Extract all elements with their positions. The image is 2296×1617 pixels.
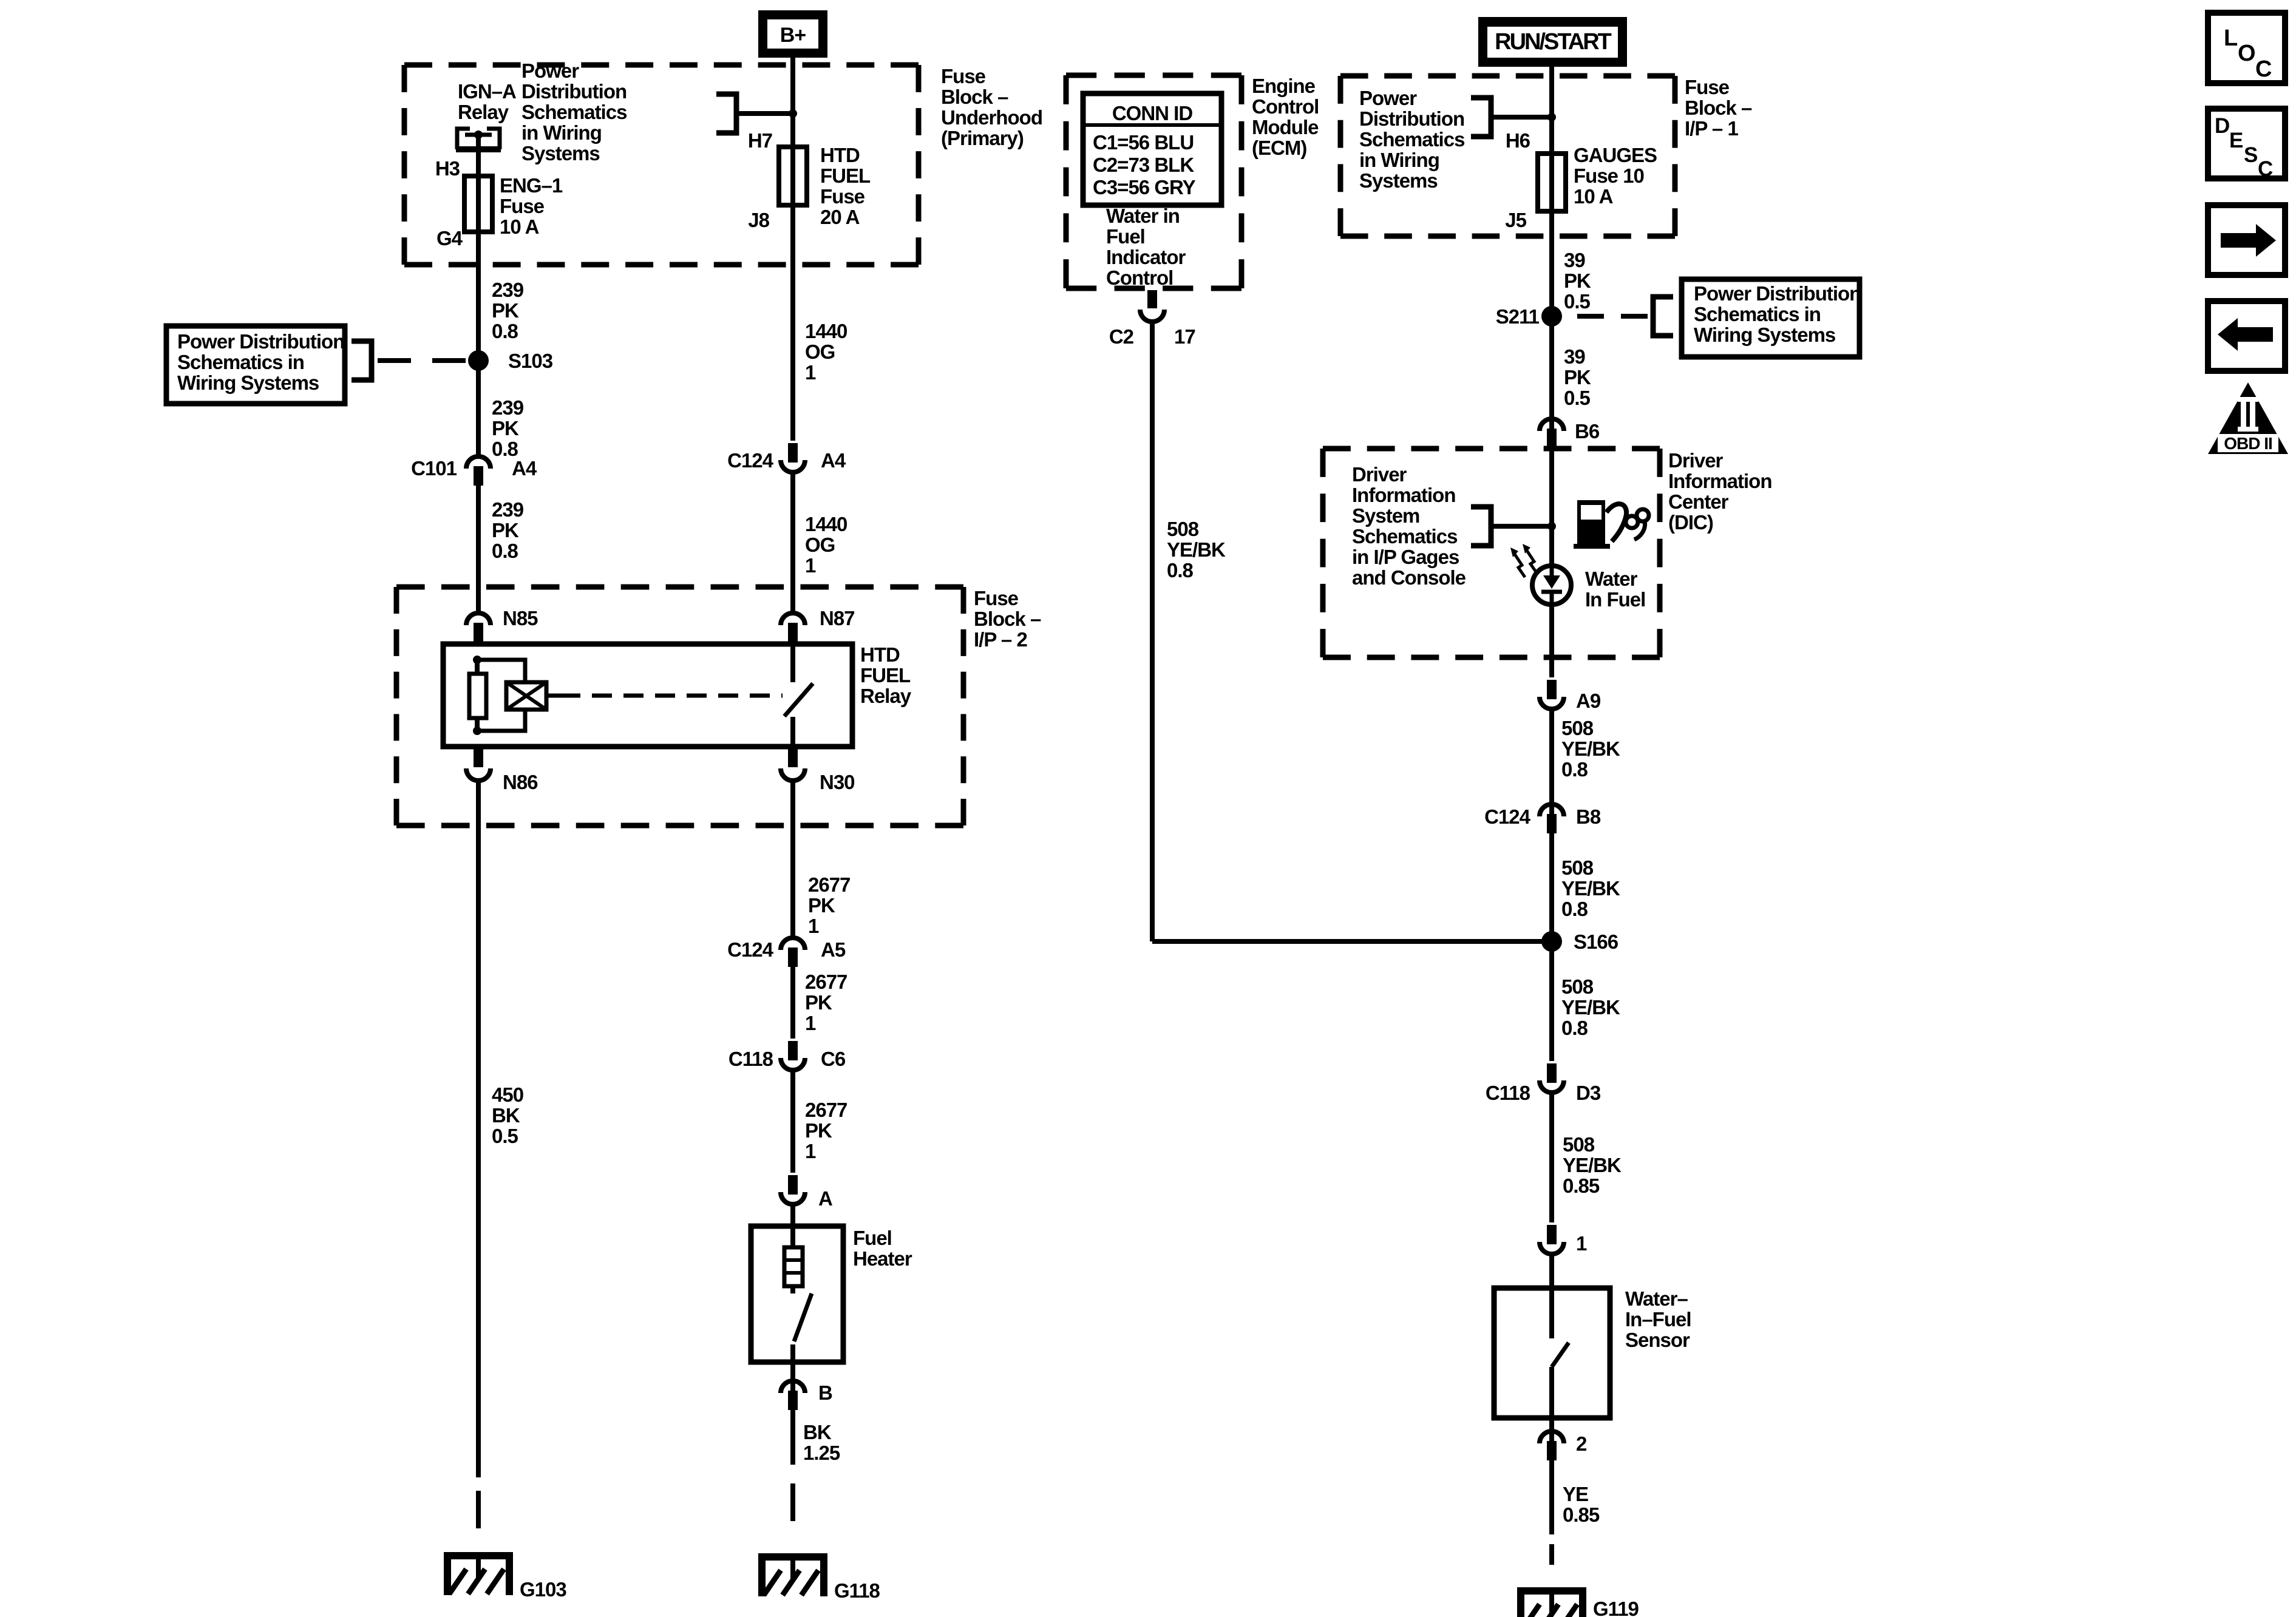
svg-text:in Wiring: in Wiring	[521, 121, 602, 144]
svg-text:A9: A9	[1576, 690, 1601, 712]
svg-text:17: 17	[1174, 325, 1195, 348]
svg-text:Fuse: Fuse	[974, 587, 1019, 609]
svg-text:Fuse: Fuse	[1685, 76, 1730, 98]
svg-text:Schematics: Schematics	[1359, 128, 1464, 151]
svg-text:HTD: HTD	[860, 643, 900, 666]
svg-text:1: 1	[805, 1012, 816, 1034]
svg-text:N86: N86	[503, 771, 538, 793]
svg-text:1.25: 1.25	[803, 1442, 840, 1464]
svg-text:G4: G4	[436, 227, 463, 249]
svg-text:YE/BK: YE/BK	[1561, 877, 1620, 900]
svg-text:(DIC): (DIC)	[1668, 511, 1713, 534]
svg-text:J5: J5	[1505, 209, 1526, 231]
svg-text:Engine: Engine	[1252, 75, 1316, 97]
svg-text:450: 450	[492, 1083, 523, 1106]
svg-text:2: 2	[1576, 1432, 1587, 1455]
svg-text:PK: PK	[492, 519, 519, 541]
svg-text:C124: C124	[1484, 805, 1531, 828]
svg-text:B+: B+	[780, 24, 806, 47]
svg-text:L: L	[2224, 25, 2238, 51]
svg-text:1: 1	[1576, 1232, 1587, 1255]
svg-text:Module: Module	[1252, 116, 1319, 138]
svg-text:O: O	[2238, 41, 2256, 66]
svg-text:N85: N85	[503, 607, 538, 629]
svg-text:39: 39	[1564, 345, 1585, 368]
svg-text:J8: J8	[748, 209, 769, 231]
svg-text:I/P – 1: I/P – 1	[1685, 117, 1738, 140]
svg-text:Schematics in: Schematics in	[177, 351, 304, 373]
svg-text:S103: S103	[508, 350, 553, 372]
svg-text:0.85: 0.85	[1563, 1175, 1600, 1197]
svg-text:CONN ID: CONN ID	[1112, 102, 1193, 124]
svg-text:PK: PK	[808, 894, 835, 917]
svg-text:B: B	[818, 1381, 832, 1404]
svg-text:Schematics in: Schematics in	[1694, 303, 1821, 325]
svg-text:Control: Control	[1252, 95, 1319, 118]
svg-text:Power: Power	[1359, 87, 1417, 109]
svg-text:Driver: Driver	[1668, 449, 1724, 472]
svg-text:C: C	[2258, 157, 2273, 181]
svg-text:E: E	[2229, 129, 2243, 152]
svg-text:0.5: 0.5	[1564, 387, 1591, 409]
svg-text:C2: C2	[1109, 325, 1134, 348]
svg-text:S: S	[2244, 143, 2258, 167]
svg-text:10 A: 10 A	[1574, 185, 1613, 208]
svg-text:Indicator: Indicator	[1106, 246, 1186, 268]
svg-text:C124: C124	[727, 449, 774, 472]
svg-text:0.8: 0.8	[1167, 559, 1194, 581]
svg-text:In–Fuel: In–Fuel	[1625, 1308, 1691, 1331]
svg-text:0.8: 0.8	[492, 320, 518, 342]
svg-text:Water–: Water–	[1625, 1287, 1688, 1310]
svg-text:PK: PK	[492, 417, 519, 439]
svg-text:0.8: 0.8	[1561, 758, 1588, 781]
svg-text:Fuse: Fuse	[500, 195, 545, 217]
svg-text:In Fuel: In Fuel	[1585, 588, 1645, 611]
svg-text:PK: PK	[805, 1119, 832, 1142]
svg-text:RUN/START: RUN/START	[1495, 29, 1612, 55]
svg-text:Block –: Block –	[1685, 97, 1752, 119]
svg-text:System: System	[1352, 504, 1419, 527]
svg-text:10 A: 10 A	[500, 215, 539, 238]
svg-text:G119: G119	[1593, 1598, 1639, 1617]
svg-text:A4: A4	[512, 457, 537, 480]
svg-text:(Primary): (Primary)	[941, 127, 1024, 149]
svg-text:PK: PK	[805, 991, 832, 1014]
svg-text:Fuel: Fuel	[1106, 225, 1145, 248]
svg-text:A: A	[818, 1187, 832, 1210]
svg-text:Schematics: Schematics	[1352, 525, 1457, 547]
svg-text:1: 1	[805, 1140, 816, 1162]
svg-text:Distribution: Distribution	[1359, 107, 1464, 130]
svg-text:Wiring Systems: Wiring Systems	[1694, 324, 1835, 346]
svg-text:A5: A5	[821, 938, 846, 961]
svg-text:1: 1	[808, 915, 819, 937]
svg-text:PK: PK	[1564, 366, 1591, 388]
svg-text:YE/BK: YE/BK	[1561, 996, 1620, 1019]
svg-text:GAUGES: GAUGES	[1574, 144, 1657, 166]
svg-text:FUEL: FUEL	[820, 164, 871, 187]
svg-text:20 A: 20 A	[820, 206, 860, 228]
svg-text:IGN–A: IGN–A	[458, 80, 516, 103]
svg-text:N30: N30	[820, 771, 855, 793]
svg-text:D: D	[2215, 114, 2230, 138]
svg-text:PK: PK	[1564, 269, 1591, 292]
svg-text:2677: 2677	[805, 1099, 847, 1121]
svg-text:C6: C6	[821, 1048, 846, 1070]
svg-text:OG: OG	[805, 534, 835, 556]
svg-text:1: 1	[805, 554, 816, 577]
svg-text:C3=56 GRY: C3=56 GRY	[1093, 176, 1196, 198]
svg-text:Information: Information	[1668, 470, 1771, 492]
svg-text:C1=56 BLU: C1=56 BLU	[1093, 131, 1194, 154]
svg-text:YE/BK: YE/BK	[1563, 1154, 1622, 1176]
svg-text:Driver: Driver	[1352, 463, 1407, 486]
svg-text:239: 239	[492, 396, 524, 419]
svg-text:1440: 1440	[805, 513, 847, 535]
svg-text:OBD II: OBD II	[2224, 434, 2272, 453]
svg-text:Heater: Heater	[853, 1247, 912, 1270]
svg-text:508: 508	[1561, 856, 1594, 879]
svg-text:in I/P Gages: in I/P Gages	[1352, 546, 1459, 568]
svg-text:and Console: and Console	[1352, 566, 1466, 589]
svg-text:B6: B6	[1575, 420, 1600, 442]
svg-text:Water: Water	[1585, 568, 1638, 590]
svg-text:0.5: 0.5	[492, 1125, 518, 1147]
svg-text:G103: G103	[520, 1578, 566, 1601]
svg-text:Sensor: Sensor	[1625, 1329, 1690, 1351]
svg-text:Power Distribution: Power Distribution	[1694, 282, 1861, 305]
svg-text:Underhood: Underhood	[941, 106, 1042, 129]
svg-text:1440: 1440	[805, 320, 847, 342]
svg-text:508: 508	[1167, 518, 1199, 540]
svg-text:C101: C101	[411, 457, 457, 480]
svg-text:0.8: 0.8	[1561, 898, 1588, 920]
svg-text:YE/BK: YE/BK	[1561, 737, 1620, 760]
svg-text:I/P – 2: I/P – 2	[974, 628, 1027, 651]
svg-text:H3: H3	[435, 157, 460, 180]
svg-text:39: 39	[1564, 249, 1585, 271]
svg-text:YE/BK: YE/BK	[1167, 538, 1226, 561]
svg-text:Relay: Relay	[458, 101, 509, 123]
svg-text:YE: YE	[1563, 1483, 1588, 1505]
svg-text:0.5: 0.5	[1564, 290, 1591, 313]
svg-text:C124: C124	[727, 938, 774, 961]
svg-text:H7: H7	[748, 129, 772, 152]
svg-text:C118: C118	[729, 1048, 773, 1070]
svg-text:D3: D3	[1576, 1082, 1601, 1104]
svg-text:N87: N87	[820, 607, 855, 629]
svg-text:OG: OG	[805, 341, 835, 363]
svg-text:G118: G118	[834, 1579, 880, 1602]
svg-text:Water in: Water in	[1106, 205, 1180, 227]
svg-text:239: 239	[492, 279, 524, 301]
svg-text:HTD: HTD	[820, 144, 860, 166]
svg-text:FUEL: FUEL	[860, 664, 911, 686]
svg-text:0.85: 0.85	[1563, 1503, 1600, 1526]
svg-text:Fuse: Fuse	[941, 65, 986, 87]
svg-text:1: 1	[805, 361, 816, 384]
svg-text:508: 508	[1561, 717, 1594, 739]
svg-text:Power: Power	[521, 59, 579, 82]
svg-text:H6: H6	[1506, 129, 1530, 152]
svg-text:508: 508	[1563, 1133, 1595, 1156]
svg-text:C: C	[2255, 56, 2272, 82]
svg-text:2677: 2677	[808, 873, 850, 896]
svg-text:Fuse 10: Fuse 10	[1574, 164, 1644, 187]
svg-text:S166: S166	[1574, 931, 1618, 953]
svg-text:(ECM): (ECM)	[1252, 137, 1306, 159]
svg-text:Schematics: Schematics	[521, 101, 627, 123]
svg-text:Wiring Systems: Wiring Systems	[177, 371, 319, 394]
svg-text:S211: S211	[1496, 305, 1540, 328]
svg-text:C2=73 BLK: C2=73 BLK	[1093, 154, 1194, 176]
svg-text:0.8: 0.8	[1561, 1017, 1588, 1039]
svg-text:2677: 2677	[805, 971, 847, 993]
svg-text:B8: B8	[1576, 805, 1601, 828]
svg-text:Information: Information	[1352, 484, 1455, 506]
svg-text:Systems: Systems	[521, 142, 600, 164]
svg-text:BK: BK	[492, 1104, 520, 1127]
svg-text:C118: C118	[1486, 1082, 1530, 1104]
svg-text:Block –: Block –	[941, 86, 1008, 108]
svg-text:Distribution: Distribution	[521, 80, 627, 103]
svg-text:Block –: Block –	[974, 608, 1041, 630]
svg-text:PK: PK	[492, 299, 519, 322]
svg-text:ENG–1: ENG–1	[500, 174, 563, 197]
svg-text:0.8: 0.8	[492, 438, 518, 460]
svg-text:Relay: Relay	[860, 685, 912, 707]
svg-text:Fuse: Fuse	[820, 185, 865, 208]
svg-text:Systems: Systems	[1359, 169, 1438, 192]
svg-text:Control: Control	[1106, 266, 1173, 289]
svg-text:in Wiring: in Wiring	[1359, 149, 1439, 171]
svg-text:Center: Center	[1668, 490, 1729, 513]
svg-text:A4: A4	[821, 449, 846, 472]
svg-text:239: 239	[492, 498, 524, 521]
svg-text:BK: BK	[803, 1421, 832, 1443]
svg-text:508: 508	[1561, 975, 1594, 998]
svg-text:Power Distribution: Power Distribution	[177, 330, 344, 353]
svg-text:0.8: 0.8	[492, 540, 518, 562]
svg-text:Fuel: Fuel	[853, 1227, 892, 1249]
